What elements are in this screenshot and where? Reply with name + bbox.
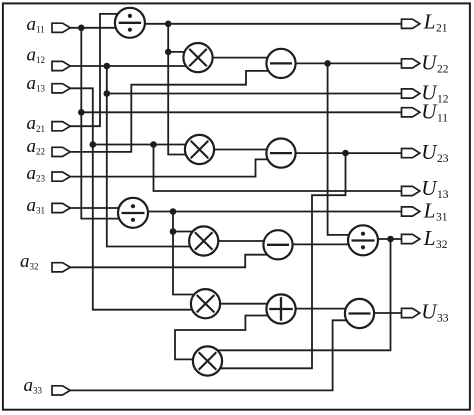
wire a23 to subtractor U5 lower input bbox=[70, 159, 268, 176]
input pin a33 bbox=[52, 386, 70, 395]
subtractor U12A (U33 = a33 - sum) bbox=[345, 299, 374, 328]
wire L32 from divider U9 to output pin bbox=[378, 238, 401, 240]
divider U6 (L31 = a31 / a11) bbox=[118, 198, 148, 228]
subtractor U5 (U23 = a23 - L21*a13) bbox=[266, 139, 295, 168]
wire multiplier U10 output to adder U11A bbox=[220, 303, 267, 305]
wire L31 vertical branch down to multipliers U7 and U10 bbox=[173, 212, 194, 295]
wire a33 to subtractor U12A lower input bbox=[70, 320, 347, 390]
wire U22 from subtractor U3 to output pin bbox=[296, 62, 402, 64]
input pin a23 bbox=[52, 172, 70, 181]
svg-text:U13: U13 bbox=[421, 176, 448, 201]
svg-text:a33: a33 bbox=[24, 375, 43, 396]
output pin U33 bbox=[402, 308, 420, 317]
svg-text:a32: a32 bbox=[20, 251, 39, 272]
output pin L32 bbox=[402, 234, 420, 243]
wire a32 to subtractor U8 lower input bbox=[70, 255, 267, 268]
output pin U13 bbox=[402, 186, 420, 195]
input pin a12 bbox=[52, 61, 70, 70]
wire U23 from subtractor U5 to output pin bbox=[296, 152, 402, 154]
wire subtractor U8 output to divider U9 bbox=[293, 243, 349, 245]
svg-text:L32: L32 bbox=[423, 226, 448, 251]
multiplier U13 (L32 x U23) bbox=[193, 346, 222, 375]
svg-text:a23: a23 bbox=[27, 163, 46, 184]
multiplier U7 (L31 x a12) bbox=[189, 226, 218, 255]
wire L21 from divider U1 to output pin bbox=[145, 23, 401, 25]
svg-text:a11: a11 bbox=[27, 14, 45, 35]
output pin L31 bbox=[402, 207, 420, 216]
subtractor U8 (a32 - L31*a12) bbox=[263, 230, 292, 259]
divider U9 (L32 = (a32 - L31*a12) / U22) bbox=[348, 225, 378, 255]
svg-text:U23: U23 bbox=[421, 140, 448, 165]
wire multiplier U4 output to subtractor U5 bbox=[214, 149, 267, 151]
svg-text:a13: a13 bbox=[27, 73, 46, 94]
output pin U12 bbox=[402, 89, 420, 98]
wire a11 vertical branch to U11 and divider U6 bbox=[81, 28, 118, 219]
wire a12 vertical branch to U12 and multiplier U7 bbox=[107, 66, 190, 247]
junction on L31 wire bbox=[170, 208, 177, 215]
wire L21 vertical branch down to multipliers U2 and U4 bbox=[168, 24, 186, 155]
wire U12 from a12 branch to output pin bbox=[107, 93, 402, 95]
input pin a31 bbox=[52, 203, 70, 212]
output pin L21 bbox=[402, 19, 420, 28]
wire U13 from a13 branch to output pin bbox=[154, 145, 402, 192]
input pin a11 bbox=[52, 23, 70, 32]
junction L21 branch into multiplier U2 bbox=[165, 49, 172, 56]
svg-text:a21: a21 bbox=[27, 113, 46, 134]
junction on U22 wire bbox=[324, 60, 331, 67]
junction on L21 wire bbox=[165, 21, 172, 28]
wire L32 branch down to multiplier U13 bbox=[217, 239, 390, 350]
junction a11 branch to U11 bbox=[78, 109, 85, 116]
junction on U23 wire bbox=[342, 150, 349, 157]
wire U23 branch down to multiplier U13 bbox=[220, 153, 345, 368]
wire a13 branch to multiplier U4 upper input bbox=[93, 144, 186, 146]
input pin a13 bbox=[52, 84, 70, 93]
wire a12 horizontal to multiplier U2 bbox=[70, 65, 186, 67]
junction L31 branch into multiplier U7 bbox=[170, 228, 177, 235]
wire multiplier U7 output to subtractor U8 bbox=[218, 240, 264, 242]
wire L21 branch into multiplier U2 bbox=[168, 51, 184, 53]
svg-text:a22: a22 bbox=[27, 136, 46, 157]
wire multiplier U13 output up to adder U11A bbox=[175, 316, 268, 360]
input pin a22 bbox=[52, 147, 70, 156]
svg-text:L21: L21 bbox=[423, 10, 448, 35]
junction a13 branch to U13 bbox=[150, 141, 157, 148]
junction on a12 wire bbox=[104, 63, 111, 70]
wire U22 branch down to divider U9 bbox=[328, 63, 349, 235]
wire L31 branch into multiplier U7 bbox=[173, 231, 193, 233]
junction a12 branch to U12 bbox=[104, 90, 111, 97]
svg-text:U22: U22 bbox=[421, 51, 448, 76]
input pin a32 bbox=[52, 263, 70, 272]
wire a21 to upper input of divider U1 bbox=[70, 14, 118, 126]
divider U1 (L21 = a21 / a11) bbox=[115, 8, 145, 38]
wire U33 from subtractor U12A to output pin bbox=[374, 312, 401, 314]
wire a31 to divider U6 upper input bbox=[70, 207, 118, 209]
multiplier U10 (L31 x a13) bbox=[191, 289, 220, 318]
svg-text:a31: a31 bbox=[27, 195, 46, 216]
wire multiplier U2 output to subtractor U3 bbox=[213, 57, 268, 59]
input pin a21 bbox=[52, 122, 70, 131]
output pin U23 bbox=[402, 149, 420, 158]
multiplier U4 (L21 x a13) bbox=[185, 135, 214, 164]
svg-text:L31: L31 bbox=[423, 199, 448, 224]
wire adder U11A output to subtractor U12A bbox=[296, 308, 346, 310]
junction a13 branch to multiplier U4 bbox=[90, 141, 97, 148]
svg-text:a12: a12 bbox=[27, 45, 46, 66]
wire a11 horizontal to divider U1 bbox=[70, 27, 115, 29]
multiplier U2 (L21 x a12) bbox=[183, 43, 212, 72]
output pin U11 bbox=[402, 108, 420, 117]
svg-text:U33: U33 bbox=[421, 300, 448, 325]
wire a13 to vertical distribution bbox=[70, 88, 192, 309]
junction on L32 wire bbox=[387, 236, 394, 243]
wire a22 to subtractor U3 lower input bbox=[70, 71, 269, 152]
junction on a11 wire bbox=[78, 25, 85, 32]
wire L31 from divider U6 to output pin bbox=[148, 211, 401, 213]
adder U11A (L31*a13 + L32*U23) bbox=[266, 294, 295, 323]
wire U11 from a11 branch to output pin bbox=[81, 111, 401, 113]
subtractor U3 (U22 = a22 - L21*a12) bbox=[266, 49, 295, 78]
output pin U22 bbox=[402, 59, 420, 68]
